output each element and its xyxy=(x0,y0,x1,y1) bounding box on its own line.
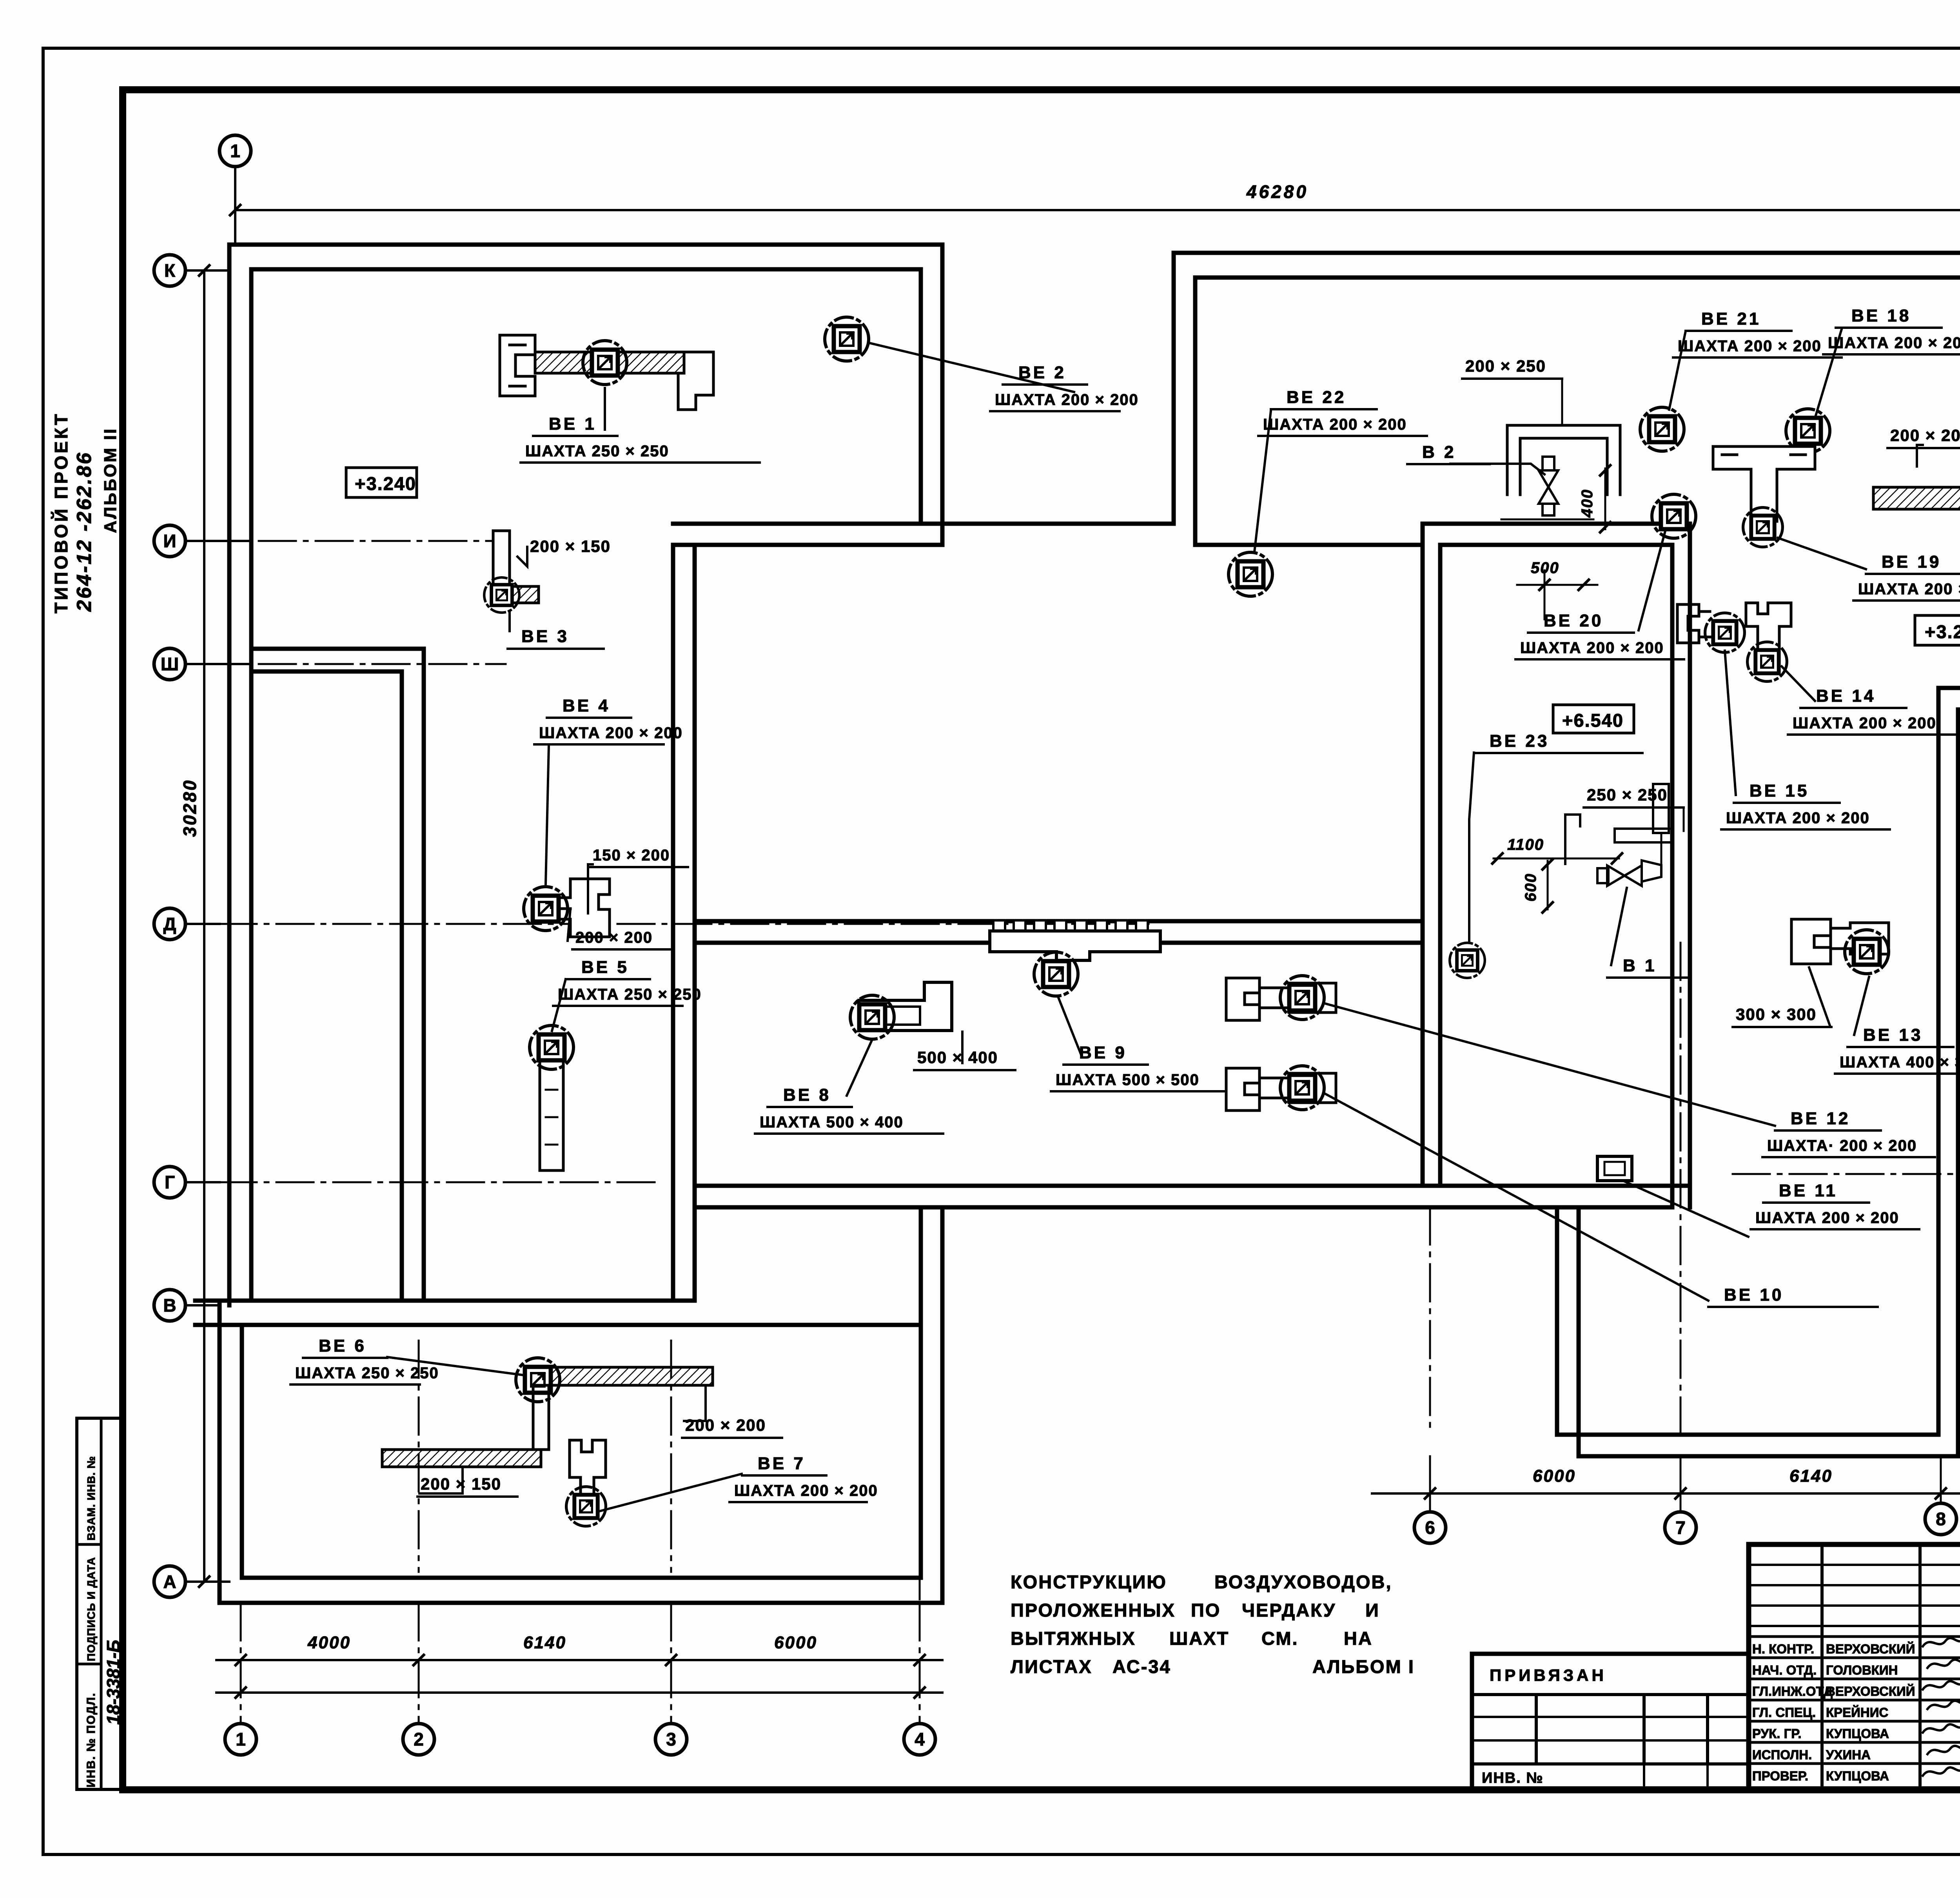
svg-text:РУК. ГР.: РУК. ГР. xyxy=(1752,1726,1802,1741)
leader BE18 xyxy=(1816,329,1842,416)
vent BE8 duct xyxy=(859,982,952,1031)
vent BE6 symbol xyxy=(516,1358,560,1402)
svg-text:ВЫТЯЖНЫХ: ВЫТЯЖНЫХ xyxy=(1011,1628,1136,1649)
svg-text:BE 23: BE 23 xyxy=(1490,731,1549,751)
svg-text:BE 6: BE 6 xyxy=(319,1336,367,1355)
wall Б-section west outer xyxy=(1555,1207,1559,1435)
svg-text:BE 10: BE 10 xyxy=(1724,1285,1784,1305)
axis А stub left xyxy=(185,1580,229,1583)
wall west outer xyxy=(227,245,232,1305)
vent duct T (BE10) xyxy=(1226,1068,1336,1110)
axis col 7 circle (bottom) xyxy=(1665,1512,1696,1543)
svg-text:ГОЛОВКИН: ГОЛОВКИН xyxy=(1826,1663,1898,1677)
wall row-Б bottom xyxy=(1579,1454,1958,1459)
svg-text:BE 7: BE 7 xyxy=(758,1454,806,1473)
svg-text:B 2: B 2 xyxy=(1422,443,1456,462)
svg-text:ИСПОЛН.: ИСПОЛН. xyxy=(1752,1747,1812,1762)
vent BE1 duct xyxy=(500,335,535,396)
vent BE6 ducts xyxy=(550,1367,713,1385)
svg-text:ШАХТА 200 × 200: ШАХТА 200 × 200 xyxy=(1755,1209,1899,1227)
leader 200x200 BE16 xyxy=(1917,445,1923,466)
vent BE20 symbol xyxy=(1652,494,1696,538)
svg-text:1: 1 xyxy=(236,1729,246,1749)
svg-text:ШАХТА 250 × 250: ШАХТА 250 × 250 xyxy=(558,986,702,1003)
wall row-Ш top xyxy=(251,647,424,651)
elevation mark +3.240 (left) xyxy=(346,468,417,497)
svg-text:ШАХТА 200 × 200: ШАХТА 200 × 200 xyxy=(1726,809,1870,827)
vent BE10 symbol xyxy=(1280,1066,1324,1110)
svg-text:300 × 300: 300 × 300 xyxy=(1736,1005,1817,1023)
vent BE22 symbol xyxy=(1229,552,1272,596)
svg-text:ГЛ. СПЕЦ.: ГЛ. СПЕЦ. xyxy=(1752,1705,1816,1720)
vent BE7 symbol xyxy=(566,1487,606,1526)
leader 500x400 xyxy=(961,1032,964,1063)
wall row-E outer xyxy=(1958,708,1960,712)
vent BE19 duct xyxy=(1713,446,1815,521)
wall north NW-wing inner xyxy=(251,267,921,272)
leader B1 xyxy=(1611,888,1627,965)
vent BE15 symbol xyxy=(1705,613,1745,653)
svg-text:НА: НА xyxy=(1344,1628,1373,1649)
svg-text:НАЧ. ОТД.: НАЧ. ОТД. xyxy=(1752,1663,1817,1677)
svg-text:BE 9: BE 9 xyxy=(1079,1043,1127,1062)
leader 200x200 BE6 xyxy=(684,1385,706,1421)
wall row-В bottom xyxy=(195,1323,921,1327)
wall north mid/right outer xyxy=(1174,251,1960,255)
axis col 8 circle (bottom) xyxy=(1925,1503,1956,1535)
leader 200x200a xyxy=(568,909,570,941)
svg-text:ПРОЛОЖЕННЫХ: ПРОЛОЖЕННЫХ xyxy=(1011,1600,1176,1620)
svg-text:А: А xyxy=(163,1571,176,1592)
wall row-Ш bottom xyxy=(251,670,402,674)
wall north mid/right inner xyxy=(1195,276,1960,280)
wall west inner xyxy=(249,269,254,1301)
elevation mark +3.240 (right) xyxy=(1915,615,1960,645)
svg-text:6140: 6140 xyxy=(523,1633,566,1652)
wall corridor bottom a xyxy=(695,1184,1440,1188)
wall row-E inner xyxy=(1938,686,1960,690)
leader BE8 xyxy=(847,1040,872,1096)
bottom-left dimension chains xyxy=(216,1659,942,1661)
leader BE19 xyxy=(1778,538,1866,569)
svg-text:ШАХТА 250 × 250: ШАХТА 250 × 250 xyxy=(525,443,669,460)
leader B2 xyxy=(1450,464,1544,474)
valve B1 xyxy=(1597,860,1661,886)
leader BE1 xyxy=(604,388,606,430)
vent BE4 symbol xyxy=(524,887,568,931)
leader BE14 xyxy=(1782,666,1815,701)
svg-text:КУПЦОВА: КУПЦОВА xyxy=(1826,1726,1889,1741)
svg-text:И: И xyxy=(1365,1600,1380,1620)
axis col 4 circle (bottom) xyxy=(904,1724,935,1755)
svg-text:6000: 6000 xyxy=(774,1633,817,1652)
wall corridor bottom b xyxy=(695,1205,1440,1210)
wall interior V5 a xyxy=(671,545,675,1301)
leader BE2 xyxy=(869,343,1074,392)
axis К stub left xyxy=(185,269,229,272)
leader BE22 xyxy=(1254,411,1271,552)
svg-text:BE 13: BE 13 xyxy=(1863,1025,1923,1045)
axis В stub left xyxy=(185,1304,220,1306)
svg-text:8: 8 xyxy=(1936,1509,1946,1529)
wall shaft-room top inner xyxy=(1440,543,1672,547)
vent BE13 duct xyxy=(1791,919,1889,964)
svg-text:ГЛ.ИНЖ.ОТД: ГЛ.ИНЖ.ОТД xyxy=(1752,1684,1833,1698)
leader 200x150 BE6 xyxy=(419,1467,463,1493)
wall connector bottom xyxy=(673,543,942,547)
leader BE12 xyxy=(1325,1003,1775,1126)
svg-text:ШАХТ: ШАХТ xyxy=(1169,1628,1229,1649)
svg-text:BE 2: BE 2 xyxy=(1018,363,1066,382)
axis И stub left xyxy=(185,540,251,542)
wall shaft-room top outer xyxy=(1423,522,1690,526)
svg-text:Н. КОНТР.: Н. КОНТР. xyxy=(1752,1642,1814,1656)
wall row-А inner xyxy=(242,1576,921,1580)
axis row Ш circle (left) xyxy=(154,648,185,680)
svg-text:+6.540: +6.540 xyxy=(1562,710,1624,731)
wall SW-bump west outer xyxy=(218,1301,222,1603)
svg-text:ИНВ. №: ИНВ. № xyxy=(1482,1770,1544,1786)
axis col 2 circle (bottom) xyxy=(403,1724,434,1755)
axis row Г circle (left) xyxy=(154,1167,185,1198)
vent BE2 symbol xyxy=(825,317,869,361)
svg-text:150 × 200: 150 × 200 xyxy=(593,847,670,864)
vent BE16 duct xyxy=(1873,487,1960,509)
svg-text:ШАХТА 400 × 300: ШАХТА 400 × 300 xyxy=(1840,1054,1960,1071)
leader BE3 xyxy=(508,611,511,631)
wall east lower outer a xyxy=(1936,688,1941,1435)
leader BE7 xyxy=(600,1474,742,1511)
svg-text:ШАХТА· 200 × 200: ШАХТА· 200 × 200 xyxy=(1767,1137,1917,1154)
svg-text:BE 12: BE 12 xyxy=(1791,1109,1850,1128)
leader BE5 xyxy=(552,979,566,1031)
svg-text:4000: 4000 xyxy=(307,1633,351,1652)
wall shaft-room east outer xyxy=(1688,524,1692,1207)
svg-text:ШАХТА 200 × 200: ШАХТА 200 × 200 xyxy=(1828,334,1960,352)
svg-text:ШАХТА 500 × 500: ШАХТА 500 × 500 xyxy=(1056,1071,1200,1089)
svg-text:250 × 250: 250 × 250 xyxy=(1587,786,1668,804)
svg-text:BE 4: BE 4 xyxy=(563,696,610,715)
svg-text:400: 400 xyxy=(1579,489,1596,518)
svg-text:И: И xyxy=(163,531,176,551)
svg-text:ЧЕРДАКУ: ЧЕРДАКУ xyxy=(1242,1600,1336,1620)
svg-text:УХИНА: УХИНА xyxy=(1826,1747,1871,1762)
svg-text:6140: 6140 xyxy=(1789,1466,1833,1486)
svg-text:BE 19: BE 19 xyxy=(1882,552,1941,572)
axis row И circle (left) xyxy=(154,525,185,557)
svg-text:200 × 200: 200 × 200 xyxy=(1890,426,1960,445)
svg-text:ШАХТА 200 × 200: ШАХТА 200 × 200 xyxy=(1858,581,1960,598)
svg-text:АЛЬБОМ I: АЛЬБОМ I xyxy=(1312,1656,1415,1677)
vent BE5 symbol xyxy=(530,1025,573,1069)
svg-text:BE 22: BE 22 xyxy=(1287,388,1346,407)
svg-text:ПРОВЕР.: ПРОВЕР. xyxy=(1752,1769,1808,1783)
vent BE1 symbol xyxy=(583,341,627,385)
dim 400 (B2) xyxy=(1604,468,1606,529)
svg-text:ШАХТА 200 × 200: ШАХТА 200 × 200 xyxy=(1520,639,1664,657)
svg-text:ШАХТА 200 × 200: ШАХТА 200 × 200 xyxy=(539,724,683,742)
vent BE13 symbol xyxy=(1845,930,1889,974)
wall row-Б top xyxy=(1557,1433,1938,1437)
svg-text:ЛИСТАХ: ЛИСТАХ xyxy=(1011,1656,1093,1677)
leader 300x300 xyxy=(1809,967,1830,1025)
svg-text:ТИПОВОЙ ПРОЕКТ: ТИПОВОЙ ПРОЕКТ xyxy=(51,412,71,613)
svg-text:2: 2 xyxy=(414,1729,424,1749)
vent BE11 grille xyxy=(1597,1156,1632,1181)
axis col 1 circle (bottom) xyxy=(225,1724,256,1755)
svg-text:7: 7 xyxy=(1675,1517,1686,1538)
leader 200x150 xyxy=(517,547,527,566)
svg-text:1100: 1100 xyxy=(1507,836,1544,853)
wall shaft-room east inner xyxy=(1670,545,1675,1207)
axis 2 dash inside xyxy=(418,1341,420,1572)
wall shaft-room west inner xyxy=(1438,545,1443,1186)
duct shaft B2 outline xyxy=(1507,425,1620,495)
axis row К circle (left) xyxy=(154,255,185,286)
svg-text:BE 5: BE 5 xyxy=(581,958,629,977)
axis row Д circle (left) xyxy=(154,908,185,940)
vent BE9 symbol xyxy=(1034,952,1078,996)
svg-text:ШАХТА 200 × 200: ШАХТА 200 × 200 xyxy=(1678,338,1822,355)
svg-text:ШАХТА 200 × 200: ШАХТА 200 × 200 xyxy=(995,391,1139,408)
axis Д stub left xyxy=(185,923,220,925)
wall connector top xyxy=(673,522,1174,526)
svg-text:АЛЬБОМ II: АЛЬБОМ II xyxy=(101,427,120,533)
duct bits B1 xyxy=(1653,784,1669,833)
axis Г stub left xyxy=(185,1181,220,1183)
svg-text:ШАХТА 200 × 200: ШАХТА 200 × 200 xyxy=(1263,416,1407,433)
svg-text:BE 11: BE 11 xyxy=(1779,1181,1838,1200)
svg-text:ШАХТА 200 × 200: ШАХТА 200 × 200 xyxy=(734,1482,878,1499)
vent BE14 symbol xyxy=(1748,642,1787,682)
svg-text:ВЗАМ. ИНВ. №: ВЗАМ. ИНВ. № xyxy=(85,1456,97,1541)
svg-text:4: 4 xyxy=(915,1729,925,1749)
wall row-В top xyxy=(195,1299,695,1303)
dim 500 (B2) xyxy=(1517,584,1597,586)
wall interior V2 b xyxy=(422,649,426,1301)
vent BE8 symbol xyxy=(850,995,894,1039)
vent BE18 symbol xyxy=(1786,409,1830,453)
vent BE21 symbol xyxy=(1640,407,1684,451)
svg-text:30280: 30280 xyxy=(180,779,200,837)
leader BE4 xyxy=(546,746,549,884)
svg-text:КУПЦОВА: КУПЦОВА xyxy=(1826,1769,1889,1783)
svg-text:Ш: Ш xyxy=(161,654,179,674)
leader BE9 xyxy=(1058,998,1082,1057)
svg-text:200 × 200: 200 × 200 xyxy=(685,1416,766,1434)
svg-text:200 × 200: 200 × 200 xyxy=(575,929,653,946)
svg-text:ШАХТА 500 × 400: ШАХТА 500 × 400 xyxy=(760,1114,904,1131)
axis row А circle (left) xyxy=(154,1566,185,1597)
wall mid-section west inner xyxy=(1193,278,1198,545)
axis 3 dash inside xyxy=(670,1341,672,1572)
leader 150x200 xyxy=(588,864,593,913)
signatures scribbles xyxy=(1923,1637,1960,1646)
vent BE5 duct xyxy=(540,1061,563,1170)
svg-text:ВОЗДУХОВОДОВ,: ВОЗДУХОВОДОВ, xyxy=(1214,1571,1392,1592)
wall shaft-room west outer xyxy=(1421,524,1425,1186)
svg-text:ШАХТА 200 × 200: ШАХТА 200 × 200 xyxy=(1793,715,1936,732)
svg-text:+3.240: +3.240 xyxy=(355,473,416,494)
svg-text:BE 1: BE 1 xyxy=(549,414,597,434)
valve B2 xyxy=(1539,457,1558,515)
leader BE15 xyxy=(1725,651,1736,795)
leader BE13 xyxy=(1854,977,1869,1035)
svg-text:BE 18: BE 18 xyxy=(1851,306,1911,325)
svg-text:ШАХТА 250 × 250: ШАХТА 250 × 250 xyxy=(295,1365,439,1382)
svg-text:200 × 150: 200 × 150 xyxy=(421,1475,501,1493)
svg-text:К: К xyxy=(164,260,176,281)
svg-text:BE 3: BE 3 xyxy=(521,627,569,646)
wall interior V2 a xyxy=(400,671,404,1301)
svg-text:B 1: B 1 xyxy=(1623,956,1657,975)
svg-text:BE 15: BE 15 xyxy=(1749,781,1809,800)
wall SW-bump east outer xyxy=(940,1207,945,1603)
svg-text:BE 8: BE 8 xyxy=(783,1085,831,1105)
svg-text:6000: 6000 xyxy=(1533,1466,1576,1486)
svg-text:В: В xyxy=(163,1295,176,1316)
svg-text:BE 21: BE 21 xyxy=(1701,309,1761,328)
axis Г stub right xyxy=(1733,1173,1960,1175)
leader BE6 xyxy=(387,1357,523,1375)
svg-text:BE 14: BE 14 xyxy=(1816,686,1876,706)
svg-text:ИНВ. № ПОДЛ.: ИНВ. № ПОДЛ. xyxy=(85,1692,98,1787)
svg-text:3: 3 xyxy=(666,1729,676,1749)
svg-text:46280: 46280 xyxy=(1246,181,1308,202)
wall interior V5 b xyxy=(693,545,697,1301)
axis Ш stub left xyxy=(185,663,251,665)
svg-text:200 × 250: 200 × 250 xyxy=(1465,357,1546,375)
svg-text:КРЕЙНИС: КРЕЙНИС xyxy=(1826,1705,1888,1720)
wall east lower outer b xyxy=(1956,709,1960,1456)
vent BE15 duct xyxy=(1677,604,1710,643)
svg-text:600: 600 xyxy=(1522,873,1539,902)
svg-text:ВЕРХОВСКИЙ: ВЕРХОВСКИЙ xyxy=(1826,1641,1915,1656)
top dimension 46280 xyxy=(235,209,1960,211)
leader BE11 xyxy=(1623,1181,1748,1237)
vent BE14 duct xyxy=(1746,603,1791,650)
wall row-А outer xyxy=(220,1601,942,1605)
svg-text:ВЕРХОВСКИЙ: ВЕРХОВСКИЙ xyxy=(1826,1684,1915,1698)
vent duct T (BE12) xyxy=(1226,978,1336,1020)
privyazan table xyxy=(1472,1654,1749,1789)
axis 6 dash inside xyxy=(1429,1207,1431,1435)
vent BE23 symbol xyxy=(1450,943,1485,978)
wall SW-bump west inner xyxy=(240,1325,244,1578)
svg-text:ПРИВЯЗАН: ПРИВЯЗАН xyxy=(1490,1666,1607,1684)
wall shaft-room top inner ext xyxy=(1195,543,1423,547)
vent BE3 symbol xyxy=(484,577,519,613)
leader BE23 xyxy=(1469,753,1474,941)
axis col 1 circle (top) xyxy=(220,135,251,167)
svg-text:264-12 -262.86: 264-12 -262.86 xyxy=(73,451,96,612)
axis 7 dash inside xyxy=(1680,943,1682,1435)
svg-text:500: 500 xyxy=(1531,559,1559,577)
vent BE4 duct xyxy=(557,879,610,937)
svg-text:6: 6 xyxy=(1425,1517,1435,1538)
margin stamp boxes bottom-left xyxy=(77,1418,123,1789)
axis col 6 circle (bottom) xyxy=(1414,1512,1446,1543)
svg-text:ПО: ПО xyxy=(1191,1600,1221,1620)
left dimension line 30280 xyxy=(203,270,205,1582)
leader BE20 xyxy=(1639,531,1665,630)
axis 4 dash inside xyxy=(919,1341,921,1599)
svg-text:АС-34: АС-34 xyxy=(1112,1656,1171,1677)
svg-text:18-3381-Б: 18-3381-Б xyxy=(103,1640,123,1725)
svg-text:+3.240: +3.240 xyxy=(1925,621,1960,642)
leader BE21 xyxy=(1669,331,1686,410)
svg-text:ПОДПИСЬ И ДАТА: ПОДПИСЬ И ДАТА xyxy=(85,1557,97,1661)
svg-text:1: 1 xyxy=(230,141,240,161)
wall north NW-wing outer xyxy=(229,243,942,247)
wall NW-wing east outer xyxy=(940,245,945,545)
wall mid-section west outer xyxy=(1172,253,1176,524)
axis row В circle (left) xyxy=(154,1290,185,1321)
B2 reference line xyxy=(1501,519,1593,521)
bottom-right dimension chain xyxy=(1372,1492,1960,1495)
vent BE3 duct xyxy=(493,531,510,590)
svg-text:КОНСТРУКЦИЮ: КОНСТРУКЦИЮ xyxy=(1011,1571,1167,1592)
vent BE19 symbol xyxy=(1743,508,1783,547)
wall corridor top a xyxy=(695,919,1423,924)
vent BE9 grille comb xyxy=(993,920,1005,931)
svg-text:Г: Г xyxy=(165,1172,175,1192)
svg-text:200 × 150: 200 × 150 xyxy=(530,537,611,555)
dim 1100 (B1) xyxy=(1494,858,1619,860)
leader BE10 xyxy=(1325,1094,1708,1301)
signature table xyxy=(1749,1564,1960,1566)
axis col 3 circle (bottom) xyxy=(655,1724,687,1755)
svg-text:BE 20: BE 20 xyxy=(1544,611,1603,630)
svg-text:СМ.: СМ. xyxy=(1261,1628,1299,1649)
dim 600 (B1) xyxy=(1547,861,1549,909)
svg-text:Д: Д xyxy=(163,914,176,934)
svg-text:500 × 400: 500 × 400 xyxy=(917,1048,998,1067)
elevation mark +6.540 xyxy=(1553,705,1634,733)
wall Б-section west inner xyxy=(1577,1207,1581,1456)
wall NW-wing east inner xyxy=(919,269,923,524)
vent BE12 symbol xyxy=(1280,976,1324,1020)
vent BE7 duct xyxy=(570,1440,606,1495)
wall SW-bump east inner xyxy=(919,1207,923,1578)
wall corridor top b xyxy=(695,941,1423,945)
